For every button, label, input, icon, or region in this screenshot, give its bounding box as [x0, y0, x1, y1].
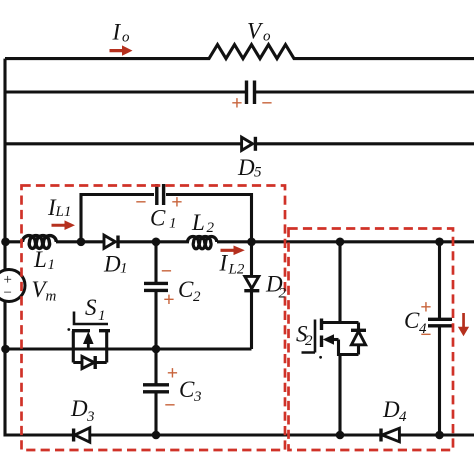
- svg-text:−: −: [161, 261, 172, 283]
- svg-text:+: +: [231, 93, 242, 115]
- svg-text:V: V: [247, 19, 264, 44]
- svg-text:+: +: [171, 192, 182, 214]
- svg-text:3: 3: [86, 409, 95, 425]
- svg-text:L: L: [191, 210, 205, 235]
- svg-text:1: 1: [120, 261, 128, 277]
- svg-text:+: +: [420, 297, 431, 319]
- svg-text:S: S: [85, 295, 97, 320]
- svg-text:I: I: [112, 20, 122, 45]
- svg-text:L2: L2: [228, 262, 245, 278]
- svg-text:1: 1: [169, 216, 177, 232]
- svg-text:−: −: [420, 324, 431, 346]
- svg-text:C: C: [178, 277, 194, 302]
- svg-text:C: C: [179, 377, 195, 402]
- svg-text:2: 2: [193, 289, 201, 305]
- svg-text:−: −: [2, 285, 12, 301]
- svg-text:D: D: [103, 252, 121, 277]
- svg-text:L1: L1: [55, 204, 72, 220]
- svg-text:1: 1: [48, 257, 56, 273]
- svg-text:−: −: [261, 93, 272, 115]
- svg-text:L: L: [33, 247, 47, 272]
- svg-text:2: 2: [279, 286, 287, 302]
- svg-text:m: m: [46, 289, 57, 305]
- svg-text:1: 1: [98, 308, 106, 324]
- svg-text:4: 4: [399, 409, 407, 425]
- svg-text:2: 2: [207, 220, 215, 236]
- svg-text:C: C: [404, 308, 420, 333]
- svg-text:−: −: [135, 192, 146, 214]
- svg-text:2: 2: [305, 333, 313, 349]
- svg-text:3: 3: [193, 389, 202, 405]
- svg-text:+: +: [167, 363, 178, 385]
- svg-text:+: +: [163, 289, 174, 311]
- svg-text:o: o: [263, 29, 271, 45]
- svg-text:D: D: [70, 396, 88, 421]
- svg-text:I: I: [219, 251, 229, 276]
- svg-text:C: C: [150, 206, 166, 231]
- svg-text:−: −: [164, 395, 175, 417]
- svg-text:D: D: [237, 155, 255, 180]
- svg-text:5: 5: [254, 165, 262, 181]
- svg-text:D: D: [382, 397, 400, 422]
- svg-text:o: o: [122, 30, 130, 46]
